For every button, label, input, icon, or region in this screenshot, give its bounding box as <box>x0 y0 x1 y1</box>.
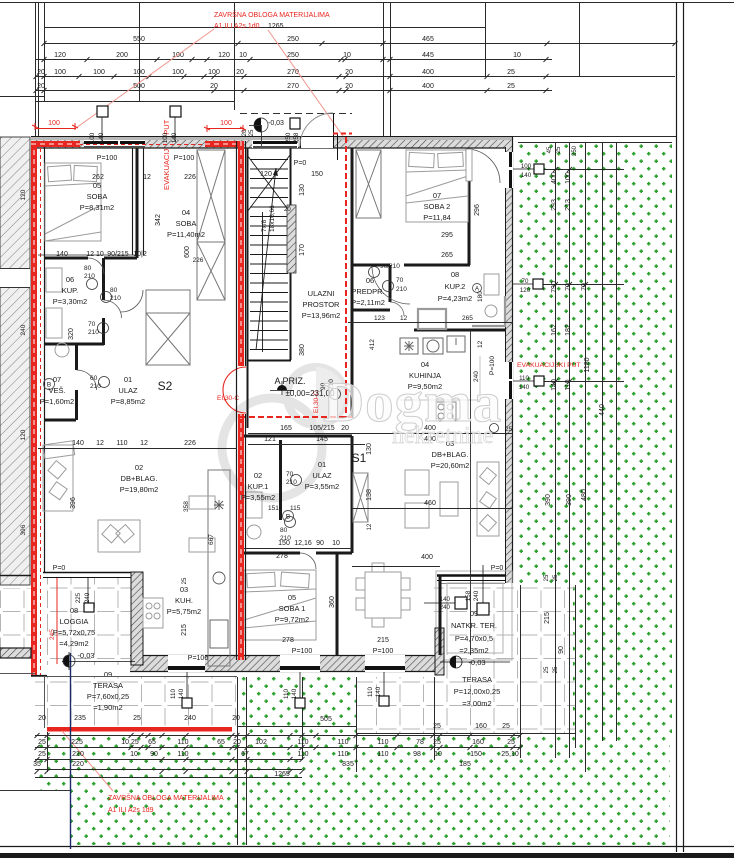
svg-text:140: 140 <box>171 132 178 143</box>
svg-text:130: 130 <box>299 184 306 196</box>
svg-text:90/215: 90/215 <box>107 251 129 258</box>
svg-text:140: 140 <box>521 172 532 179</box>
green bottom band full <box>37 733 670 845</box>
svg-text:110: 110 <box>337 751 348 758</box>
svg-text:80: 80 <box>110 287 118 294</box>
svg-text:210: 210 <box>110 295 121 302</box>
svg-text:09: 09 <box>104 670 112 679</box>
paver neighbour terrace left margin <box>0 588 33 652</box>
svg-text:20: 20 <box>284 207 291 213</box>
svg-text:400: 400 <box>422 83 434 90</box>
svg-text:-0,03: -0,03 <box>468 658 485 667</box>
svg-text:P=4,23m2: P=4,23m2 <box>438 294 472 303</box>
top-left red wall <box>31 141 80 147</box>
svg-text:SOBA 2: SOBA 2 <box>424 202 451 211</box>
top-mid red wall <box>205 141 244 147</box>
elevator shaft hatch <box>287 205 296 273</box>
svg-text:262: 262 <box>92 174 104 181</box>
left margin rotated dims <box>20 189 27 535</box>
svg-text:110: 110 <box>377 739 388 746</box>
svg-text:400: 400 <box>422 69 434 76</box>
kitchen S1 counter <box>400 338 418 354</box>
svg-text:-0,03: -0,03 <box>77 651 94 660</box>
svg-text:150: 150 <box>470 751 482 758</box>
svg-text:505: 505 <box>320 716 332 723</box>
svg-text:ULAZ: ULAZ <box>312 471 332 480</box>
svg-text:140: 140 <box>551 379 558 391</box>
svg-text:100: 100 <box>220 120 232 127</box>
svg-text:P=11,40m2: P=11,40m2 <box>167 230 205 239</box>
watermark rings (under) <box>222 367 345 498</box>
svg-text:295: 295 <box>441 232 453 239</box>
kup06 fixtures <box>45 489 47 491</box>
svg-text:07: 07 <box>53 375 61 384</box>
svg-text:P=4,70x0,5: P=4,70x0,5 <box>455 634 493 643</box>
svg-text:240: 240 <box>440 604 451 611</box>
svg-text:05: 05 <box>93 181 101 190</box>
middle red wall black edges <box>31 141 246 676</box>
svg-text:10: 10 <box>513 52 521 59</box>
svg-text:100: 100 <box>89 132 96 143</box>
svg-text:P=19,80m2: P=19,80m2 <box>120 485 159 494</box>
svg-text:240: 240 <box>184 715 196 722</box>
svg-text:P=1,60m2: P=1,60m2 <box>40 397 74 406</box>
svg-text:70: 70 <box>396 277 404 284</box>
svg-text:1265: 1265 <box>268 23 284 30</box>
wardrobe X hall S2 <box>146 313 190 365</box>
svg-text:04: 04 <box>421 360 429 369</box>
couch center S2 <box>98 520 140 552</box>
natkr left wall <box>435 628 444 675</box>
paver terrace right <box>356 677 575 733</box>
svg-text:P=13,96m2: P=13,96m2 <box>302 311 341 320</box>
svg-text:213: 213 <box>565 199 572 211</box>
svg-text:110: 110 <box>337 739 348 746</box>
svg-text:P=100: P=100 <box>373 648 394 655</box>
svg-text:98: 98 <box>413 751 421 758</box>
svg-text:10: 10 <box>343 52 351 59</box>
svg-text:P=0: P=0 <box>53 565 66 572</box>
svg-text:100: 100 <box>162 132 169 143</box>
svg-text:SOBA 1: SOBA 1 <box>279 604 306 613</box>
svg-text:S2: S2 <box>158 379 173 393</box>
svg-text:05: 05 <box>288 593 296 602</box>
svg-text:100: 100 <box>54 69 66 76</box>
svg-text:445: 445 <box>422 52 434 59</box>
misc interior dims <box>53 155 504 662</box>
svg-text:P=20,60m2: P=20,60m2 <box>431 461 470 470</box>
svg-text:90/210: 90/210 <box>380 263 400 270</box>
svg-text:102: 102 <box>255 739 267 746</box>
svg-text:293: 293 <box>551 199 558 211</box>
svg-text:120: 120 <box>260 171 272 178</box>
svg-text:358: 358 <box>183 501 190 512</box>
svg-text:110: 110 <box>377 751 388 758</box>
svg-text:67: 67 <box>241 751 249 758</box>
svg-text:400: 400 <box>421 554 433 561</box>
svg-text:110: 110 <box>297 751 308 758</box>
svg-text:25: 25 <box>556 146 562 153</box>
svg-text:08: 08 <box>451 270 459 279</box>
svg-text:235: 235 <box>74 715 86 722</box>
svg-text:EVAKUACIJSKI PUT: EVAKUACIJSKI PUT <box>162 119 171 190</box>
svg-text:20: 20 <box>37 69 45 76</box>
svg-text:250: 250 <box>287 52 299 59</box>
svg-text:90: 90 <box>558 646 565 654</box>
paver loggia <box>45 578 131 665</box>
red dashed line along top wall <box>37 144 238 146</box>
top dim texts row1 <box>37 36 521 90</box>
right exterior wall <box>505 147 513 583</box>
svg-text:160: 160 <box>472 739 484 746</box>
svg-text:DB+BLAG.: DB+BLAG. <box>121 474 158 483</box>
svg-text:90: 90 <box>150 751 158 758</box>
svg-text:120: 120 <box>20 429 27 440</box>
svg-text:25: 25 <box>544 574 550 581</box>
kitchen S2 <box>143 598 163 628</box>
svg-text:12: 12 <box>143 174 151 181</box>
svg-text:150: 150 <box>311 171 323 178</box>
wardrobe X soba04 <box>197 150 225 242</box>
svg-text:P=100: P=100 <box>174 155 195 162</box>
svg-text:667: 667 <box>208 534 215 545</box>
svg-text:-0,03: -0,03 <box>268 120 284 127</box>
svg-text:145: 145 <box>316 436 328 443</box>
svg-text:25: 25 <box>249 129 255 136</box>
svg-text:412: 412 <box>369 339 376 350</box>
red door arc middle <box>223 367 246 413</box>
svg-text:240: 240 <box>20 324 27 335</box>
svg-text:465: 465 <box>422 36 434 43</box>
svg-text:250: 250 <box>285 132 292 143</box>
svg-text:158: 158 <box>465 590 472 601</box>
svg-text:20: 20 <box>38 715 46 722</box>
svg-text:60: 60 <box>90 375 98 382</box>
window band stairs top + entry opening <box>240 113 352 160</box>
svg-text:215: 215 <box>544 612 551 624</box>
svg-text:PROSTOR: PROSTOR <box>303 300 341 309</box>
svg-text:20: 20 <box>242 129 248 136</box>
svg-text:210: 210 <box>90 383 101 390</box>
svg-text:10: 10 <box>130 751 138 758</box>
svg-text:270: 270 <box>287 83 299 90</box>
bed soba05 <box>45 163 101 241</box>
svg-text:P=8,31m2: P=8,31m2 <box>80 203 114 212</box>
blue boundary line <box>70 653 72 849</box>
svg-text:TERASA: TERASA <box>462 675 492 684</box>
natkr ter markers <box>455 597 467 609</box>
svg-text:460: 460 <box>424 500 436 507</box>
svg-text:1180: 1180 <box>584 357 591 372</box>
dining S1 <box>365 572 401 618</box>
svg-text:70: 70 <box>581 283 588 291</box>
window right db <box>505 362 513 399</box>
svg-text:10: 10 <box>239 52 247 59</box>
svg-text:12: 12 <box>96 440 104 447</box>
svg-text:P=100: P=100 <box>292 648 313 655</box>
svg-text:A PRIZ.: A PRIZ. <box>274 376 305 386</box>
green lawn right-lower strip (right of terrace) <box>573 585 672 733</box>
vertical guides <box>35 2 37 141</box>
svg-text:ULAZNI: ULAZNI <box>308 289 335 298</box>
svg-text:600: 600 <box>184 246 191 258</box>
svg-text:390: 390 <box>545 494 552 506</box>
svg-text:110: 110 <box>177 751 188 758</box>
svg-text:25: 25 <box>507 739 515 746</box>
svg-text:P=11,84: P=11,84 <box>423 213 451 222</box>
svg-text:380: 380 <box>299 344 306 356</box>
window right soba2 <box>505 152 513 188</box>
svg-text:12: 12 <box>477 340 484 348</box>
sofa S1 <box>477 462 499 536</box>
svg-text:KUP.1: KUP.1 <box>248 482 269 491</box>
natkr overhang outlines <box>436 571 512 660</box>
svg-text:215: 215 <box>181 624 188 636</box>
svg-text:06: 06 <box>66 275 74 284</box>
svg-text:120: 120 <box>218 52 230 59</box>
svg-text:=3,00m2: =3,00m2 <box>462 699 491 708</box>
svg-text:100: 100 <box>565 172 572 184</box>
loggia marker <box>84 603 94 612</box>
svg-text:P=3,30m2: P=3,30m2 <box>53 297 87 306</box>
svg-text:396: 396 <box>20 524 27 535</box>
svg-text:225: 225 <box>71 739 83 746</box>
svg-text:25: 25 <box>182 577 188 584</box>
svg-text:TERASA: TERASA <box>93 681 123 690</box>
svg-text:550: 550 <box>133 36 145 43</box>
svg-text:440: 440 <box>599 404 606 416</box>
svg-text:70: 70 <box>522 278 529 285</box>
svg-text:ZAVRŠNA OBLOGA MATERIJALIMA: ZAVRŠNA OBLOGA MATERIJALIMA <box>108 793 224 802</box>
svg-text:120: 120 <box>520 287 531 294</box>
svg-text:265: 265 <box>441 252 453 259</box>
svg-text:123: 123 <box>374 315 385 322</box>
natkr ter open edge <box>437 574 505 577</box>
wall hook squares with labels <box>84 106 544 708</box>
svg-text:25: 25 <box>38 751 46 758</box>
svg-text:80: 80 <box>84 265 92 272</box>
svg-text:65: 65 <box>217 739 225 746</box>
svg-text:P=7,60x0,25: P=7,60x0,25 <box>87 692 129 701</box>
svg-text:78: 78 <box>416 739 424 746</box>
window band soba05/04 top <box>84 140 145 148</box>
svg-text:P=0: P=0 <box>294 160 307 167</box>
column markers right green <box>534 164 544 174</box>
svg-text:DB+BLAG.: DB+BLAG. <box>432 450 469 459</box>
bed soba1 <box>244 570 316 640</box>
svg-text:165: 165 <box>280 425 292 432</box>
door dimension texts + knobs <box>84 205 513 545</box>
watermark dogma <box>323 371 502 449</box>
svg-text:12: 12 <box>400 315 408 322</box>
terasa left outline <box>44 677 46 728</box>
svg-text:25: 25 <box>553 666 559 673</box>
svg-text:220: 220 <box>72 751 84 758</box>
svg-text:70: 70 <box>286 471 294 478</box>
svg-text:A1 ILI A2s 1d9: A1 ILI A2s 1d9 <box>108 807 154 814</box>
svg-text:25: 25 <box>133 715 141 722</box>
svg-text:100: 100 <box>521 163 532 170</box>
svg-text:140: 140 <box>98 132 105 143</box>
svg-text:KUP.: KUP. <box>62 286 79 295</box>
svg-text:P=100: P=100 <box>188 655 209 662</box>
svg-text:342: 342 <box>155 214 162 226</box>
svg-text:20: 20 <box>233 739 241 746</box>
svg-text:110: 110 <box>177 739 188 746</box>
svg-text:12,16: 12,16 <box>294 540 312 547</box>
svg-text:P=9,72m2: P=9,72m2 <box>275 615 309 624</box>
svg-text:20: 20 <box>236 69 244 76</box>
svg-text:P=3,55m2: P=3,55m2 <box>305 482 339 491</box>
loggia/kuh partition <box>131 572 143 665</box>
red bottom thick bar terasa <box>47 727 232 732</box>
svg-text:7x/8: 7x/8 <box>261 219 268 232</box>
svg-text:140: 140 <box>72 440 84 447</box>
svg-text:215: 215 <box>377 637 389 644</box>
svg-text:KUH.: KUH. <box>175 596 193 605</box>
svg-text:270: 270 <box>287 69 299 76</box>
svg-text:162: 162 <box>551 324 558 336</box>
svg-text:EVAKUACIJSKI PUT: EVAKUACIJSKI PUT <box>517 362 581 369</box>
svg-text:110: 110 <box>519 375 529 382</box>
svg-text:110: 110 <box>170 689 177 699</box>
svg-text:140: 140 <box>56 251 68 258</box>
svg-text:160: 160 <box>475 723 487 730</box>
kup2 fixtures <box>418 309 446 329</box>
svg-text:PREDPR.: PREDPR. <box>351 287 384 296</box>
svg-text:25: 25 <box>502 723 510 730</box>
loggia open edge <box>43 572 131 574</box>
svg-text:130: 130 <box>366 443 373 455</box>
svg-text:35: 35 <box>33 761 41 768</box>
svg-text:45: 45 <box>547 146 553 153</box>
svg-text:70: 70 <box>565 283 572 291</box>
kup1 fixtures <box>246 492 262 518</box>
svg-text:360: 360 <box>329 596 336 608</box>
svg-text:08: 08 <box>70 606 78 615</box>
sofa db+blag S2 <box>43 445 73 511</box>
svg-text:25: 25 <box>505 426 513 433</box>
left red wall <box>31 141 37 676</box>
kitchen S2 fixtures <box>210 404 435 648</box>
hatch margin strip left <box>0 137 30 585</box>
svg-text:90: 90 <box>316 540 324 547</box>
svg-text:110: 110 <box>116 440 127 447</box>
svg-text:A1 ILI A2s 1d0: A1 ILI A2s 1d0 <box>214 23 260 30</box>
svg-text:140: 140 <box>519 384 530 391</box>
svg-text:1265: 1265 <box>274 771 290 778</box>
svg-text:400: 400 <box>551 172 558 184</box>
svg-text:250: 250 <box>287 36 299 43</box>
svg-text:151: 151 <box>268 505 279 512</box>
svg-text:100: 100 <box>93 69 105 76</box>
windows bottom <box>168 655 405 672</box>
middle red wall vertical <box>238 141 244 366</box>
svg-text:P=8,85m2: P=8,85m2 <box>111 397 145 406</box>
svg-text:25: 25 <box>553 574 559 581</box>
svg-text:185: 185 <box>459 761 471 768</box>
svg-text:110: 110 <box>565 379 572 390</box>
svg-text:P=5,72x0,75: P=5,72x0,75 <box>53 628 95 637</box>
svg-text:nekretnine: nekretnine <box>392 423 493 449</box>
svg-text:240: 240 <box>473 590 480 601</box>
svg-text:140: 140 <box>178 688 185 699</box>
red dashed firewall right of stairs <box>345 137 347 418</box>
svg-text:396: 396 <box>70 497 77 509</box>
svg-text:10|2: 10|2 <box>133 251 147 258</box>
svg-text:LOGGIA: LOGGIA <box>60 617 89 626</box>
svg-text:10,25: 10,25 <box>121 739 139 746</box>
svg-text:80: 80 <box>280 527 288 534</box>
svg-text:278: 278 <box>282 637 294 644</box>
svg-text:20: 20 <box>345 83 353 90</box>
svg-text:65: 65 <box>148 739 156 746</box>
left inner wall line <box>44 141 46 572</box>
svg-text:210: 210 <box>88 329 99 336</box>
entry door arc outward <box>300 113 333 146</box>
level marker -0,03 <box>254 118 268 132</box>
wardrobe X predpr <box>356 150 381 218</box>
paver terrace left <box>35 677 237 728</box>
tables S1 <box>405 470 429 495</box>
svg-text:115: 115 <box>290 505 301 512</box>
svg-text:210: 210 <box>84 273 95 280</box>
svg-text:25: 25 <box>507 83 515 90</box>
svg-text:170: 170 <box>299 244 306 256</box>
svg-text:258: 258 <box>293 132 300 143</box>
svg-text:70: 70 <box>88 321 96 328</box>
svg-text:10: 10 <box>332 540 340 547</box>
svg-text:225: 225 <box>75 592 82 603</box>
svg-text:240: 240 <box>84 592 91 603</box>
kuh cabinets <box>189 496 215 509</box>
svg-text:226: 226 <box>193 257 204 264</box>
svg-text:25: 25 <box>544 666 550 673</box>
svg-text:20: 20 <box>345 69 353 76</box>
svg-text:220: 220 <box>72 761 84 768</box>
level markers <box>62 381 510 670</box>
svg-text:226: 226 <box>184 174 196 181</box>
column markers top <box>97 106 108 117</box>
svg-text:20: 20 <box>232 715 240 722</box>
svg-text:120: 120 <box>54 52 66 59</box>
svg-text:480: 480 <box>581 489 588 501</box>
red leader bottom <box>62 731 113 791</box>
bed soba2 <box>406 150 468 222</box>
top exterior wall <box>31 136 513 141</box>
svg-text:ULAZ: ULAZ <box>118 386 138 395</box>
soba05 lower dim row <box>56 129 255 258</box>
svg-text:110: 110 <box>367 687 374 697</box>
svg-text:12 10: 12 10 <box>86 251 104 258</box>
B/A marker circles <box>44 284 482 522</box>
svg-text:25: 25 <box>507 69 515 76</box>
svg-text:P=5,75m2: P=5,75m2 <box>167 607 201 616</box>
green bottom left edge clip <box>37 790 70 845</box>
svg-text:250: 250 <box>572 145 578 156</box>
svg-text:P=12,00x0,25: P=12,00x0,25 <box>454 687 501 696</box>
svg-text:04: 04 <box>182 208 190 217</box>
svg-text:NATKR. TER.: NATKR. TER. <box>451 621 497 630</box>
svg-text:200: 200 <box>116 52 128 59</box>
svg-text:=4,29m2: =4,29m2 <box>59 639 88 648</box>
closet ulaz S1 <box>353 473 368 522</box>
green area dim verticals <box>48 137 677 846</box>
svg-text:835: 835 <box>342 761 354 768</box>
svg-text:100: 100 <box>48 120 60 127</box>
svg-text:120: 120 <box>20 189 27 200</box>
red loggia dim <box>56 578 58 664</box>
